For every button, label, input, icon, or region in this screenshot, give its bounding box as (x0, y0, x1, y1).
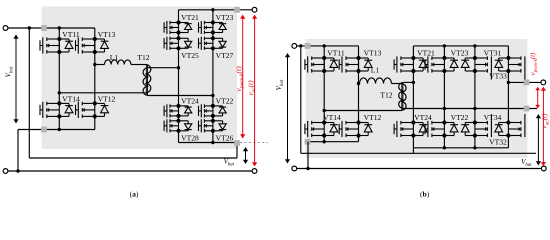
transistor VT26 (199, 119, 227, 132)
boundary marker top-left (b) (305, 43, 311, 49)
transistor VT24 (b) (394, 121, 427, 137)
boundary marker secondary bus (b) (524, 106, 530, 112)
svg-text:VT33: VT33 (489, 72, 507, 81)
wire: input bottom rail (a) (18, 129, 95, 131)
boundary marker bottom-right (a) (234, 140, 240, 146)
junction on top rail for return line (a) (28, 26, 31, 29)
transistor VT33 (b) (495, 56, 525, 79)
transformer T12 secondary winding (a) (143, 68, 148, 96)
inductor L1 (a) (105, 60, 131, 65)
wire: leg3 vertical (b) (474, 46, 476, 58)
transistor VT25 (164, 37, 192, 50)
transistor VT13 (b) (339, 56, 372, 72)
junction VT23 drain (b) (443, 44, 446, 47)
wire: L1 to transformer primary (a) (131, 64, 146, 66)
junction sec bottom at VT23/VT22 mid (b) (443, 107, 446, 110)
svg-text:L1: L1 (110, 53, 119, 62)
transistor VT28 (164, 119, 192, 132)
junction VT23 drain on output rail (a) (211, 8, 214, 11)
junction sec bottom at VT31/VT34 mid (b) (473, 107, 476, 110)
boundary marker bottom-left (a) (41, 127, 47, 133)
junction output tap (b) (507, 81, 510, 84)
wire: battery negative drop (b) (307, 142, 309, 169)
svg-text:VT14: VT14 (323, 113, 341, 122)
wire: secondary top to leg1 (b) (404, 81, 414, 83)
dashed level line (a) (240, 142, 268, 144)
junction battery negative (a) (16, 169, 19, 172)
node: output - terminal (a) (252, 169, 257, 174)
svg-text:VT13: VT13 (98, 30, 116, 39)
svg-text:VT22: VT22 (216, 96, 234, 105)
transistor VT13 (76, 37, 109, 53)
boundary marker output (b) (524, 80, 530, 86)
wire: return rail (a) (29, 157, 237, 159)
wire: output tap (b) (508, 81, 543, 83)
svg-text:VT26: VT26 (216, 133, 234, 142)
wire: rail3 to return (b) (412, 148, 414, 154)
wire: leg1 vertical (b) (412, 46, 414, 58)
node: battery - terminal (a) (3, 169, 8, 174)
svg-text:vac(t): vac(t) (539, 113, 550, 129)
transistor VT23 (199, 21, 227, 34)
wire: output leg right vertical (a) (212, 10, 214, 23)
wire: battery negative drop (a) (17, 130, 19, 172)
node: battery - terminal (b) (292, 166, 297, 171)
wire VT22-VT26 link (a) (212, 116, 214, 121)
figure b: converter panel background (306, 39, 528, 158)
transistor VT11 (40, 37, 73, 53)
junction return line on top rail (b) (299, 44, 302, 47)
svg-text:vac(t): vac(t) (246, 80, 257, 96)
wire: output leg left vertical (a) (178, 10, 180, 23)
transformer T12 primary winding (b) (401, 84, 406, 111)
junction VT26 source on output bottom rail (a) (211, 141, 214, 144)
svg-text:VT24: VT24 (414, 113, 432, 122)
wire: input top rail (b) (294, 45, 358, 47)
transistor VT24 (164, 104, 192, 117)
transistor VT21 (b) (394, 56, 427, 72)
junction primary bottom at VT11/VT14 midpoint (a) (58, 91, 61, 94)
wire VT24-VT28 link (a) (178, 116, 180, 121)
transistor VT12 (b) (339, 121, 372, 137)
junction L1 tap (a) (93, 63, 96, 66)
voltage arrow V_bat output side (b) (536, 114, 541, 166)
junction secondary top at VT21/VT24 mid (b) (412, 81, 415, 84)
transistor VT32 (b) (495, 114, 525, 137)
wire: leg2 vertical (b) (443, 46, 445, 58)
svg-text:VT23: VT23 (451, 49, 469, 58)
wire: output top rail (a) (179, 9, 255, 11)
wire: input bottom rail (b) (308, 141, 359, 143)
wire: bottom rail (b) (294, 168, 544, 170)
wire: return rail (b) (301, 152, 536, 154)
svg-text:VT14: VT14 (62, 95, 80, 104)
wire: output top rail (b) (413, 45, 508, 47)
junction VT14 source on bottom rail (a) (58, 128, 61, 131)
svg-text:(a): (a) (130, 189, 139, 198)
wire: VT11-VT14 leg (a) (58, 28, 60, 103)
transistor VT21 (164, 21, 192, 34)
svg-text:VT11: VT11 (62, 30, 80, 39)
transistor VT14 (40, 102, 73, 118)
node: output - terminal (b) (541, 166, 546, 171)
node: output terminal (b) (541, 80, 546, 85)
boundary marker top-right (a) (234, 7, 240, 13)
wire: VT13-VT12 leg (b) (358, 46, 360, 123)
svg-text:VT21: VT21 (417, 49, 435, 58)
junction VT11 drain (b) (323, 44, 326, 47)
svg-text:VT12: VT12 (364, 113, 382, 122)
wire: L1 feed from VT13/VT12 midpoint (a) (95, 64, 105, 66)
svg-text:L1: L1 (371, 66, 380, 75)
junction VT14 source (b) (323, 140, 326, 143)
transistor VT34 (b) (461, 114, 491, 137)
voltage arrow v_pwm (b) (535, 87, 540, 109)
svg-text:VT21: VT21 (181, 13, 199, 22)
junction (b) (306, 167, 309, 170)
voltage arrow V_bat (b) (285, 53, 290, 164)
svg-text:VT12: VT12 (98, 95, 116, 104)
wire: secondary top S1 (a) (148, 67, 178, 69)
wire: output bottom rail (a) (179, 142, 238, 144)
wire: output bottom to return rail corner (a) (236, 143, 238, 159)
transformer T12 primary winding (a) (145, 65, 150, 93)
transformer T12 secondary winding (b) (399, 82, 404, 108)
junction primary bottom at VT11/VT14 mid (b) (323, 109, 326, 112)
transistor VT12 (76, 102, 109, 118)
svg-text:VT27: VT27 (216, 51, 234, 60)
transistor VT11 (b) (305, 56, 338, 72)
svg-text:VT24: VT24 (181, 96, 199, 105)
wire: return line left vertical (a) (28, 28, 30, 158)
junction L1 tap (b) (357, 82, 360, 85)
wire: primary bottom (b) (324, 110, 401, 112)
svg-text:(b): (b) (420, 189, 430, 198)
wire VT23-VT27 link (a) (212, 33, 214, 39)
svg-text:VT11: VT11 (327, 49, 345, 58)
junction VT34 source (b) (473, 146, 476, 149)
wire: primary bottom (a) (59, 92, 145, 94)
transistor VT22 (b) (425, 121, 458, 137)
svg-text:T12: T12 (137, 53, 149, 62)
inductor L1 (b) (360, 78, 392, 84)
wire: L1 to transformer (b) (392, 83, 401, 85)
transformer T12 core (b) (401, 82, 403, 110)
transistor VT27 (199, 37, 227, 50)
figure a: converter panel background (42, 6, 238, 149)
wire: VT13-VT12 leg (a) (94, 28, 96, 103)
node: battery + terminal (a) (3, 26, 8, 31)
boundary marker bottom-left (b) (305, 139, 311, 145)
transistor VT14 (b) (305, 121, 338, 137)
svg-text:VT34: VT34 (484, 113, 502, 122)
svg-text:T12: T12 (380, 90, 392, 99)
voltage arrow v_pwm (a) (240, 15, 245, 139)
wire: VT11-VT14 leg (b) (323, 46, 325, 123)
svg-text:VT32: VT32 (489, 138, 507, 147)
transistor VT31 (b) (461, 56, 491, 79)
wire: secondary bottom S2 (a) (148, 95, 213, 97)
svg-text:VT13: VT13 (364, 49, 382, 58)
wire: return vertical (b) (300, 46, 302, 153)
voltage arrow V_bat input (a) (13, 35, 18, 124)
transistor VT23 (b) (425, 56, 458, 72)
junction VT22 source (b) (443, 146, 446, 149)
svg-text:VT23: VT23 (216, 13, 234, 22)
svg-text:VT22: VT22 (451, 113, 469, 122)
transformer T12 core (a) (145, 65, 147, 96)
junction VT11 drain on top rail (a) (58, 26, 61, 29)
transistor VT22 (199, 104, 227, 117)
junction S1 at VT25/VT24 node (a) (177, 66, 180, 69)
junction S2 at VT27/VT22 node (a) (211, 94, 214, 97)
wire: battery bottom rail (a) (6, 170, 255, 172)
svg-text:VT25: VT25 (181, 51, 199, 60)
wire: output bottom rail (b) (413, 147, 508, 149)
voltage arrow v_ac (a) (252, 15, 257, 167)
voltage arrow V_bat output side (a) (243, 147, 248, 164)
voltage arrow v_ac (b) (541, 87, 546, 167)
node: battery + terminal (b) (292, 44, 297, 49)
wire: leg4 vertical (b) (507, 46, 509, 58)
wire VT21-VT25 link (a) (178, 33, 180, 39)
svg-text:VT28: VT28 (181, 133, 199, 142)
svg-text:VT31: VT31 (484, 49, 502, 58)
junction VT31 drain (b) (473, 44, 476, 47)
boundary marker top-left (a) (41, 25, 47, 31)
wire: secondary bottom bus (b) (404, 108, 537, 110)
wire: input top rail (a) (6, 27, 95, 29)
node: output + terminal (a) (252, 7, 257, 12)
